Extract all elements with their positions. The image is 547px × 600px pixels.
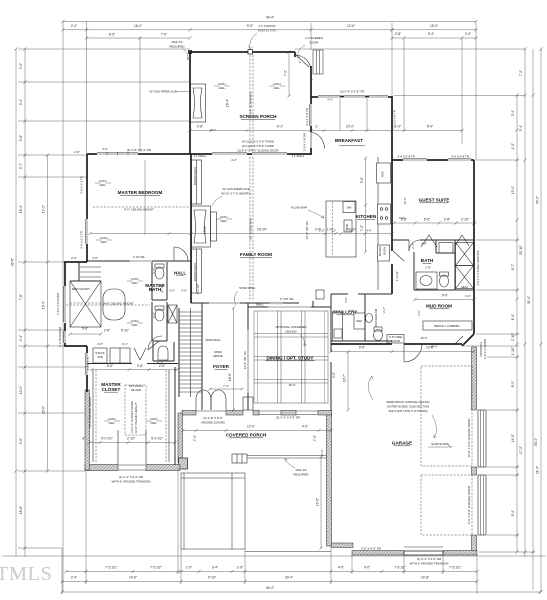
left inner dim line bbox=[19, 47, 27, 557]
note porch glazing bbox=[237, 140, 278, 153]
svg-text:2'-10": 2'-10" bbox=[127, 437, 135, 441]
breakfast door arc bbox=[295, 132, 325, 149]
svg-text:WITH 6" ARCHED TRANSOM: WITH 6" ARCHED TRANSOM bbox=[410, 562, 449, 566]
label foyer bbox=[213, 364, 230, 369]
cath ceil bath1 bbox=[127, 277, 143, 285]
note sheetrock garage bbox=[368, 376, 436, 438]
svg-text:W 16" ISLAND HEIGHT: W 16" ISLAND HEIGHT bbox=[134, 402, 138, 433]
family room fireplace bbox=[192, 206, 217, 247]
svg-text:CEIL.: CEIL. bbox=[220, 219, 227, 223]
closet shelving bbox=[93, 370, 169, 464]
svg-text:33'-8": 33'-8" bbox=[11, 258, 15, 266]
svg-text:CEIL.: CEIL. bbox=[100, 240, 107, 244]
label garage bbox=[392, 441, 412, 446]
svg-text:5'-2": 5'-2" bbox=[157, 361, 163, 365]
kitchen east wall bbox=[391, 96, 393, 294]
svg-text:7'-0": 7'-0" bbox=[360, 225, 364, 231]
svg-text:1'-10": 1'-10" bbox=[511, 347, 515, 355]
closet south wall hatched bbox=[85, 465, 180, 471]
svg-text:W/ (4) 3'-9 X 8'-6" FIXED: W/ (4) 3'-9 X 8'-6" FIXED bbox=[242, 144, 274, 148]
svg-text:7'-5 1/2": 7'-5 1/2" bbox=[449, 566, 461, 570]
svg-text:9'-1": 9'-1" bbox=[277, 125, 283, 129]
bottom dim row2 bbox=[60, 576, 478, 584]
dim line y130 bbox=[188, 98, 463, 132]
svg-text:1'-0": 1'-0" bbox=[465, 294, 471, 298]
svg-text:2'-4": 2'-4" bbox=[19, 335, 23, 341]
svg-text:BENCH / CUBBIES: BENCH / CUBBIES bbox=[434, 324, 459, 328]
svg-text:6": 6" bbox=[310, 78, 314, 81]
svg-text:17'-2": 17'-2" bbox=[519, 446, 523, 454]
svg-text:9'-0" CEILING HEIGHT: 9'-0" CEILING HEIGHT bbox=[124, 207, 154, 211]
dim rot verticals internal bbox=[56, 50, 487, 549]
porch outdoor fireplace bbox=[191, 84, 206, 122]
courtyard bottom edge bbox=[245, 551, 331, 553]
svg-text:4'-0": 4'-0" bbox=[338, 566, 344, 570]
svg-text:MUD ROOM: MUD ROOM bbox=[426, 304, 452, 309]
svg-text:HALL: HALL bbox=[174, 271, 186, 276]
garage door panel 1 bbox=[478, 410, 486, 467]
label slab slope bbox=[428, 442, 452, 447]
dim guest y223 bbox=[392, 217, 477, 224]
svg-text:25'-10": 25'-10" bbox=[519, 245, 523, 255]
svg-text:2'-6": 2'-6" bbox=[152, 312, 156, 318]
family-foyer wall bbox=[191, 290, 324, 307]
east exterior wall bbox=[473, 160, 475, 334]
svg-text:1'-0": 1'-0" bbox=[511, 143, 515, 149]
svg-text:BOOKCASES: BOOKCASES bbox=[193, 167, 197, 185]
svg-text:W/ (2) 3'-9 X 3'-6" FIXED: W/ (2) 3'-9 X 3'-6" FIXED bbox=[242, 140, 274, 144]
svg-text:24'-0" CEILING HEIGHT: 24'-0" CEILING HEIGHT bbox=[88, 396, 92, 428]
label family room bbox=[240, 252, 272, 257]
label covered porch bbox=[226, 433, 267, 438]
label open above bbox=[213, 350, 223, 358]
note 4x4 posts bbox=[249, 24, 277, 49]
label mud room bbox=[426, 304, 452, 309]
svg-text:9'-0" X 8'-0" GARAGE DOOR: 9'-0" X 8'-0" GARAGE DOOR bbox=[467, 486, 471, 524]
svg-text:13'-4": 13'-4" bbox=[42, 301, 46, 309]
bath closet wall bbox=[436, 240, 455, 290]
hall door arc bbox=[148, 336, 162, 350]
svg-text:SCULLERY: SCULLERY bbox=[333, 310, 358, 315]
svg-text:6'-7": 6'-7" bbox=[511, 264, 515, 270]
kitchen hall door leaf bbox=[393, 251, 404, 261]
closet east wall bbox=[174, 367, 176, 465]
svg-text:54'-4": 54'-4" bbox=[266, 16, 274, 20]
note screen door bbox=[297, 36, 323, 58]
svg-text:3'-0 4 LT DOOR: 3'-0 4 LT DOOR bbox=[483, 339, 487, 360]
svg-text:SLAB SLOPE: SLAB SLOPE bbox=[431, 442, 449, 446]
svg-text:3/4" SCREENED: 3/4" SCREENED bbox=[249, 92, 253, 114]
wc room 2 bbox=[152, 302, 167, 341]
bookcase lower bbox=[192, 249, 202, 293]
svg-text:6": 6" bbox=[83, 437, 86, 441]
svg-text:(1) 2'-4" X 6'-2" DR: (1) 2'-4" X 6'-2" DR bbox=[119, 475, 143, 479]
dining coffered ceiling grid bbox=[254, 311, 328, 403]
svg-text:17'-2": 17'-2" bbox=[42, 205, 46, 213]
svg-text:MICRO/: MICRO/ bbox=[378, 246, 382, 257]
dining west wall bbox=[247, 303, 249, 410]
wall oven bbox=[378, 245, 390, 261]
bath bump north wall bbox=[64, 261, 87, 263]
svg-text:2'-10": 2'-10" bbox=[461, 217, 469, 221]
dim bath y332 bbox=[68, 327, 129, 336]
svg-text:CEIL.: CEIL. bbox=[218, 86, 225, 90]
svg-text:5" INT. WL: 5" INT. WL bbox=[280, 297, 294, 301]
note optional coffered bbox=[275, 325, 306, 346]
powder room fixtures bbox=[366, 314, 383, 341]
svg-text:30'-4": 30'-4" bbox=[534, 438, 538, 446]
svg-text:WALL: WALL bbox=[256, 303, 264, 307]
svg-text:10'-2": 10'-2" bbox=[346, 125, 354, 129]
dim left window rows bbox=[74, 147, 108, 154]
svg-text:ISLAND: ISLAND bbox=[131, 388, 141, 392]
porch south wall with fixed glass and sliders bbox=[190, 153, 311, 154]
svg-text:2'-8" X 4'-2" DR: 2'-8" X 4'-2" DR bbox=[361, 547, 381, 551]
left extension lines bbox=[18, 49, 190, 548]
svg-text:4'-0": 4'-0" bbox=[327, 98, 333, 102]
dining north wall bbox=[248, 306, 331, 308]
cath ceil porch left bbox=[214, 82, 230, 90]
note gas fireplace porch bbox=[149, 90, 189, 94]
svg-text:4'-3 1/2": 4'-3 1/2" bbox=[395, 271, 399, 282]
note flush bar bbox=[291, 206, 324, 219]
svg-text:BOOKCASES: BOOKCASES bbox=[193, 263, 197, 281]
range bbox=[378, 204, 391, 224]
label kitchen bbox=[356, 214, 377, 219]
bottom overall 54-4 bbox=[60, 586, 541, 594]
svg-text:2'-4": 2'-4" bbox=[71, 24, 77, 28]
svg-text:12'-6": 12'-6" bbox=[347, 24, 355, 28]
tick marks y130 line extras bbox=[246, 129, 354, 132]
label bath bbox=[421, 258, 434, 263]
svg-text:5'-10": 5'-10" bbox=[121, 329, 129, 333]
svg-text:2'-4": 2'-4" bbox=[382, 307, 386, 313]
closet north wall bbox=[87, 363, 178, 365]
svg-text:13'-4": 13'-4" bbox=[511, 186, 515, 194]
master tray ceiling dashed bbox=[93, 206, 189, 208]
porch north wall hatched segments bbox=[182, 411, 332, 416]
svg-text:GARAGE: GARAGE bbox=[392, 441, 412, 446]
svg-text:2'-8": 2'-8" bbox=[425, 266, 431, 270]
svg-text:10'-7": 10'-7" bbox=[343, 374, 347, 382]
guest suite top window wall bbox=[392, 159, 474, 160]
scullery counters bbox=[333, 312, 366, 341]
svg-text:6'-4": 6'-4" bbox=[212, 566, 218, 570]
family room dashed ceiling line bbox=[250, 157, 253, 301]
label scullery bbox=[333, 310, 358, 315]
dim patio 1-9 bbox=[0, 0, 1, 1]
svg-text:5'-0": 5'-0" bbox=[399, 216, 405, 220]
svg-text:2'-6": 2'-6" bbox=[137, 364, 143, 368]
svg-text:2'-4": 2'-4" bbox=[71, 576, 77, 580]
hall wc toilet bbox=[153, 342, 174, 361]
mud room south wall bbox=[331, 343, 462, 345]
label master bedroom bbox=[118, 190, 163, 195]
label micro oven bbox=[378, 246, 387, 257]
svg-text:2'-8 X 6'-8 TR: 2'-8 X 6'-8 TR bbox=[397, 155, 415, 159]
bath linen shelves bbox=[70, 262, 101, 281]
master bath shower bbox=[70, 281, 101, 327]
note fire door bbox=[387, 335, 404, 344]
bottom extension lines bbox=[62, 468, 477, 594]
svg-text:(2) 3'-4" X 6'-8" TR: (2) 3'-4" X 6'-8" TR bbox=[340, 90, 364, 94]
linen box bbox=[439, 243, 453, 254]
svg-text:5'-0 1/2": 5'-0 1/2" bbox=[101, 437, 113, 441]
svg-text:REF.: REF. bbox=[381, 171, 385, 177]
svg-text:15'-10": 15'-10" bbox=[257, 228, 267, 232]
svg-text:7'-0": 7'-0" bbox=[313, 435, 317, 441]
svg-text:(1) 2'-4" X 4'-2" DR: (1) 2'-4" X 4'-2" DR bbox=[417, 557, 441, 561]
svg-text:14'-0": 14'-0" bbox=[511, 434, 515, 442]
svg-text:(3) 2'-8" X 8'-0": (3) 2'-8" X 8'-0" bbox=[203, 416, 222, 420]
svg-text:34'-2": 34'-2" bbox=[536, 196, 540, 204]
screen porch top wall bbox=[188, 50, 295, 55]
svg-text:7'-0": 7'-0" bbox=[161, 33, 167, 37]
note gas fireplace family bbox=[212, 187, 251, 206]
svg-text:9'-1": 9'-1" bbox=[210, 128, 216, 132]
svg-text:CEILING: CEILING bbox=[285, 330, 297, 334]
svg-text:(4) 2'-8" X 6'-2" DR: (4) 2'-8" X 6'-2" DR bbox=[127, 148, 151, 152]
svg-text:20'-4": 20'-4" bbox=[285, 576, 293, 580]
laundry stack unit bbox=[93, 348, 130, 363]
svg-text:19'-6": 19'-6" bbox=[316, 498, 320, 506]
svg-text:12": 12" bbox=[332, 229, 336, 233]
svg-text:CEIL.: CEIL. bbox=[131, 323, 138, 327]
label master bath bbox=[145, 283, 165, 292]
cath ceil closet1 bbox=[104, 417, 120, 425]
svg-text:5'-8": 5'-8" bbox=[82, 327, 88, 331]
kitchen island bbox=[326, 201, 356, 257]
svg-text:W/ 20' X 7'-6' HEARTH: W/ 20' X 7'-6' HEARTH bbox=[221, 192, 251, 196]
vanity dashed bbox=[66, 304, 150, 306]
svg-text:DOOR: DOOR bbox=[310, 41, 319, 45]
guest closet chevron doors bbox=[421, 235, 469, 247]
svg-text:ABOVE: ABOVE bbox=[213, 354, 223, 358]
svg-text:9'-0": 9'-0" bbox=[364, 566, 370, 570]
svg-text:3'-4": 3'-4" bbox=[19, 99, 23, 105]
garage south wall hatched bbox=[331, 543, 477, 555]
svg-text:9'-0": 9'-0" bbox=[442, 294, 448, 298]
label screen porch bbox=[239, 114, 277, 119]
svg-text:36-47 CEILING HEIGHT: 36-47 CEILING HEIGHT bbox=[102, 302, 134, 306]
chamfer corner door bbox=[455, 334, 474, 346]
cath ceil bath2 bbox=[127, 319, 143, 327]
label master closet bbox=[101, 382, 121, 392]
linen closet X bbox=[168, 305, 177, 323]
porch west wall hatched bbox=[178, 413, 183, 462]
dim porch y430 bbox=[181, 425, 332, 433]
svg-text:GUEST SUITE: GUEST SUITE bbox=[419, 198, 450, 203]
garage east wall hatched bbox=[472, 347, 477, 553]
svg-text:DW: DW bbox=[347, 206, 352, 210]
master west wall with window bbox=[86, 154, 87, 262]
svg-text:16'-0": 16'-0" bbox=[228, 373, 232, 381]
svg-text:2'-0": 2'-0" bbox=[71, 256, 77, 260]
svg-text:FAMILY ROOM: FAMILY ROOM bbox=[240, 252, 272, 257]
cath ceil porch right bbox=[269, 82, 285, 90]
svg-text:DOOR: DOOR bbox=[391, 339, 400, 343]
svg-text:14'-8": 14'-8" bbox=[421, 576, 429, 580]
svg-text:2'-8 X 4'-6: 2'-8 X 4'-6 bbox=[86, 357, 90, 370]
svg-text:2'-0": 2'-0" bbox=[465, 32, 471, 36]
cath ceil family bbox=[216, 215, 232, 223]
svg-text:CLOSET: CLOSET bbox=[102, 387, 121, 392]
svg-text:16'-2": 16'-2" bbox=[320, 449, 324, 456]
note closet door transom bbox=[112, 475, 151, 484]
svg-text:STAIR RISE: STAIR RISE bbox=[239, 286, 255, 290]
svg-text:REQUIRED: REQUIRED bbox=[169, 45, 184, 49]
svg-text:8'-5": 8'-5" bbox=[109, 33, 115, 37]
svg-text:SEAT: SEAT bbox=[461, 285, 469, 289]
label breakfast bbox=[335, 138, 365, 146]
svg-text:COVERED PORCH: COVERED PORCH bbox=[226, 433, 267, 438]
dim closet y442 bbox=[83, 437, 177, 445]
label hall bbox=[174, 271, 186, 276]
svg-text:18'-8": 18'-8" bbox=[19, 506, 23, 514]
dim bath bump small bbox=[71, 256, 98, 260]
svg-text:42' GAS FIREPLACE: 42' GAS FIREPLACE bbox=[149, 90, 177, 94]
svg-text:SCREEN PORCH: SCREEN PORCH bbox=[239, 114, 277, 119]
svg-text:2'-6": 2'-6" bbox=[197, 125, 203, 129]
label stack wd bbox=[95, 351, 104, 359]
svg-text:15'-0": 15'-0" bbox=[430, 24, 438, 28]
svg-text:3'-7": 3'-7" bbox=[19, 163, 23, 169]
svg-text:2'-6": 2'-6" bbox=[319, 229, 325, 233]
svg-text:3'-0": 3'-0" bbox=[102, 147, 108, 151]
svg-text:9'-0": 9'-0" bbox=[247, 24, 253, 28]
porch east wall with window bbox=[310, 97, 311, 132]
porch slab edge bbox=[247, 456, 327, 459]
svg-text:4'-0": 4'-0" bbox=[302, 425, 308, 429]
svg-text:CEIL.: CEIL. bbox=[131, 281, 138, 285]
svg-text:AS PER NCRBC 2018 SECTION: AS PER NCRBC 2018 SECTION bbox=[387, 405, 430, 409]
dim kitchen small row bbox=[319, 229, 353, 233]
svg-text:3'-4": 3'-4" bbox=[511, 110, 515, 116]
svg-text:5'-6": 5'-6" bbox=[424, 217, 430, 221]
garage door panel 2 bbox=[478, 475, 486, 535]
svg-text:DINING / OPT. STUDY: DINING / OPT. STUDY bbox=[267, 356, 314, 361]
svg-text:42' GAS FIREPLACE: 42' GAS FIREPLACE bbox=[222, 187, 250, 191]
exterior steps bbox=[313, 50, 323, 74]
foyer arched doors symbol bbox=[196, 390, 226, 410]
label optional island bbox=[129, 384, 144, 392]
svg-text:8'-4": 8'-4" bbox=[511, 510, 515, 516]
svg-text:RAIL AS: RAIL AS bbox=[172, 40, 183, 44]
svg-text:4 X 4 WOOD: 4 X 4 WOOD bbox=[259, 24, 276, 28]
svg-text:2'-0 TRANSOM: 2'-0 TRANSOM bbox=[58, 326, 62, 347]
master tub bbox=[103, 289, 125, 320]
dim wc rot bbox=[152, 268, 156, 318]
svg-text:2'-8": 2'-8" bbox=[97, 342, 103, 346]
svg-text:8'-2": 8'-2" bbox=[511, 381, 515, 387]
svg-text:5'-8": 5'-8" bbox=[421, 242, 427, 246]
garage ceiling dashed outline bbox=[421, 366, 472, 535]
svg-text:4'-8 X 2'-6 FIXED SERVICE: 4'-8 X 2'-6 FIXED SERVICE bbox=[476, 250, 480, 286]
svg-text:ARCHED DOORS: ARCHED DOORS bbox=[201, 421, 225, 425]
svg-text:16'-4": 16'-4" bbox=[134, 24, 142, 28]
svg-text:3'-0 X 6'-2 TR: 3'-0 X 6'-2 TR bbox=[80, 176, 84, 194]
svg-text:1'-10": 1'-10" bbox=[345, 229, 352, 233]
svg-text:7'-2": 7'-2" bbox=[519, 70, 523, 76]
master north wall with 4-panel door bbox=[87, 152, 190, 155]
note rail required top bbox=[169, 40, 190, 60]
svg-text:CEIL.: CEIL. bbox=[273, 86, 280, 90]
svg-text:(3) 2'-4" X 4'-2" DR: (3) 2'-4" X 4'-2" DR bbox=[276, 416, 300, 420]
master south wall bbox=[87, 247, 191, 261]
svg-text:7'-4": 7'-4" bbox=[193, 435, 197, 441]
svg-text:3'-4 X 6'-8 TR: 3'-4 X 6'-8 TR bbox=[393, 110, 397, 128]
svg-text:5'-0": 5'-0" bbox=[427, 125, 433, 129]
dim closet hall bbox=[97, 342, 163, 365]
svg-text:KITCHEN: KITCHEN bbox=[356, 214, 377, 219]
patio terrace bbox=[181, 473, 245, 549]
svg-text:5'-4": 5'-4" bbox=[519, 125, 523, 131]
bookcase upper bbox=[192, 160, 202, 204]
breakfast bay window wall bbox=[311, 96, 392, 97]
bath hall walls bbox=[414, 252, 474, 290]
svg-text:OPEN RAIL: OPEN RAIL bbox=[205, 338, 221, 342]
dim breakfast ticks bbox=[310, 125, 326, 132]
svg-text:MASTER BEDROOM: MASTER BEDROOM bbox=[118, 190, 163, 195]
note rail required bottom bbox=[285, 459, 309, 477]
svg-text:4'-0 X 2'-0 FIXED: 4'-0 X 2'-0 FIXED bbox=[56, 293, 60, 315]
svg-text:13'-6": 13'-6" bbox=[403, 197, 407, 204]
note arched doors porch bbox=[201, 416, 225, 425]
svg-text:CEIL.: CEIL. bbox=[150, 421, 157, 425]
svg-text:9'-10": 9'-10" bbox=[208, 576, 216, 580]
dim mud y299 bbox=[413, 294, 475, 302]
svg-text:4'-2": 4'-2" bbox=[231, 158, 237, 162]
svg-text:16'-4": 16'-4" bbox=[226, 99, 230, 107]
svg-text:10'-6": 10'-6" bbox=[420, 336, 427, 340]
screen door leaf bbox=[296, 55, 311, 71]
svg-text:CEIL.: CEIL. bbox=[99, 183, 106, 187]
hall closet chevron doors bbox=[134, 348, 146, 360]
svg-text:7'-2": 7'-2" bbox=[284, 70, 288, 76]
family-master wall bbox=[190, 154, 192, 303]
porch screened dashed line bbox=[250, 55, 253, 151]
dim mud small bbox=[417, 294, 471, 316]
svg-text:W/D: W/D bbox=[97, 355, 103, 359]
svg-text:4'-6": 4'-6" bbox=[181, 289, 187, 293]
svg-text:POSTS (TYP.): POSTS (TYP.) bbox=[258, 29, 277, 33]
cath ceil master bbox=[95, 179, 111, 187]
svg-text:16'-0" X 8'-0" GARAGE DOOR: 16'-0" X 8'-0" GARAGE DOOR bbox=[467, 418, 471, 457]
svg-text:3'-0 X 6'-2 TR: 3'-0 X 6'-2 TR bbox=[80, 231, 84, 249]
svg-text:BREAKFAST: BREAKFAST bbox=[335, 138, 363, 143]
svg-text:ZERO ENTRY: ZERO ENTRY bbox=[72, 287, 91, 291]
dim hall small bbox=[169, 289, 187, 293]
cath ceil closet2 bbox=[146, 417, 162, 425]
closet dim row bbox=[90, 364, 178, 371]
svg-text:BATH: BATH bbox=[149, 287, 162, 292]
svg-text:BATH: BATH bbox=[421, 258, 434, 263]
svg-text:FOYER: FOYER bbox=[213, 364, 230, 369]
foyer west wall bbox=[201, 303, 203, 410]
top extension lines bbox=[63, 22, 476, 593]
dim porch top 2-6 bbox=[298, 61, 314, 81]
svg-text:2'-6 SCREEN: 2'-6 SCREEN bbox=[305, 36, 323, 40]
mud bench bbox=[423, 321, 472, 330]
porch west wall bbox=[189, 52, 191, 154]
garage recess entry bbox=[404, 547, 443, 555]
label guest suite bbox=[419, 198, 450, 203]
svg-text:3'-0": 3'-0" bbox=[344, 297, 348, 303]
svg-text:1'-5": 1'-5" bbox=[417, 310, 421, 316]
svg-text:WITH 6" ARCHED TRANSOM: WITH 6" ARCHED TRANSOM bbox=[112, 480, 151, 484]
refrigerator bbox=[377, 163, 391, 183]
dim bath small bbox=[411, 242, 431, 270]
